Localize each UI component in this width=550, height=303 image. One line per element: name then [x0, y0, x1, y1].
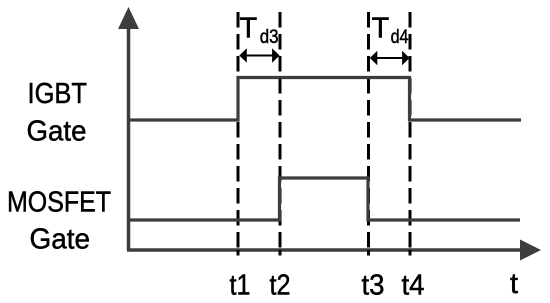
svg-text:t: t [510, 268, 518, 300]
svg-text:Gate: Gate [27, 116, 87, 148]
svg-text:t2: t2 [270, 270, 291, 302]
svg-text:Gate: Gate [30, 224, 91, 256]
svg-text:t4: t4 [402, 270, 425, 302]
svg-text:d3: d3 [260, 27, 279, 48]
svg-text:t3: t3 [362, 270, 385, 302]
svg-text:T: T [372, 13, 390, 45]
svg-text:IGBT: IGBT [28, 78, 88, 110]
svg-text:T: T [240, 13, 258, 45]
svg-text:t1: t1 [230, 270, 251, 302]
svg-text:d4: d4 [391, 27, 409, 48]
svg-text:MOSFET: MOSFET [7, 187, 111, 219]
